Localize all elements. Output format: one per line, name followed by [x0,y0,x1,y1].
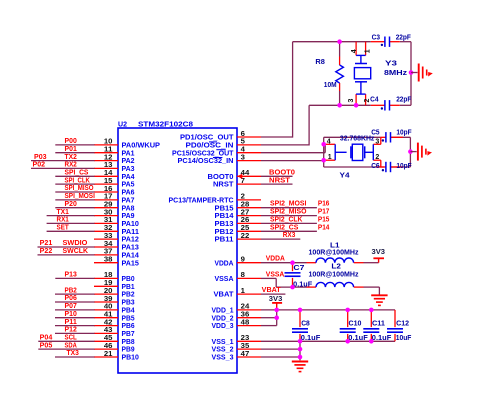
pin 23 VSS_1 [237,340,261,342]
svg-text:46: 46 [104,343,113,350]
svg-text:RX1: RX1 [57,217,69,224]
svg-text:SDA: SDA [65,342,77,349]
crystal Y3 pin 4 lead [355,42,357,56]
crystal Y3 top plate [355,63,367,65]
svg-text:NRST: NRST [213,182,234,189]
wire net VDD_3 [261,325,277,327]
pin 47 VSS_3 [237,356,261,358]
svg-text:100R@100MHz: 100R@100MHz [309,272,359,279]
svg-text:7: 7 [241,178,245,185]
wire PD0/OSC_IN to Y3 bottom rail [261,144,309,146]
svg-text:P07: P07 [65,303,77,310]
crystal Y4 left bracket [334,144,336,160]
svg-text:P04: P04 [40,335,53,342]
pin 20 PB2 [94,293,118,295]
pin 42 PB6 [94,325,118,327]
wire net P07 [55,309,95,311]
pin 48 VDD_3 [237,325,261,327]
svg-text:SPI_CLK: SPI_CLK [65,177,90,184]
pin 24 VDD_1 [237,309,261,311]
pin 33 PA12 [94,238,118,240]
svg-text:SPI_MISO: SPI_MISO [65,185,94,192]
junction Y3 ground node [409,70,414,75]
svg-text:P02: P02 [33,162,46,169]
wire PC14/OSC32_IN to Y4 [261,160,324,162]
svg-text:4: 4 [241,147,245,154]
svg-text:41: 41 [104,312,113,319]
svg-text:17: 17 [104,194,113,201]
wire net SPI2_CS [261,230,317,232]
wire net SDA [38,348,94,350]
svg-text:PB12: PB12 [215,229,234,236]
wire net NRST [261,183,293,185]
pin 35 VSS_2 [237,348,261,350]
svg-text:C6: C6 [371,163,379,170]
wire net SET [47,230,95,232]
wire net SCL [38,340,94,342]
junction VSS rail C8 [298,339,303,344]
wire VSS bottom rail [261,340,395,342]
wire R8 top [339,42,341,57]
svg-text:P22: P22 [40,248,53,255]
svg-text:P05: P05 [40,342,53,349]
svg-text:P10: P10 [65,311,77,318]
capacitor C7 [285,272,301,274]
svg-text:Y4: Y4 [340,173,350,180]
svg-text:11: 11 [104,147,113,154]
crystal Y4 pin 1 lead [324,159,336,161]
capacitor C10 [340,328,356,330]
wire net SWCLK [38,254,95,256]
pin 41 PB5 [94,317,118,319]
svg-text:C10: C10 [349,321,362,328]
svg-text:SPI2_MOSI: SPI2_MOSI [270,201,306,208]
pin 21 PB10 [94,356,118,358]
pin 18 PB0 [94,277,118,279]
pin 13 PA3 [94,167,118,169]
svg-text:PB8: PB8 [122,339,135,346]
wire net VSS_3 [261,356,300,358]
svg-text:SET: SET [57,225,70,232]
svg-text:33: 33 [104,233,113,240]
wire net P11 [55,325,95,327]
svg-text:SPI2_CS: SPI2_CS [270,224,299,231]
svg-text:PC13/TAMPER-RTC: PC13/TAMPER-RTC [169,198,234,205]
wire net SPI2_CLK [261,222,317,224]
wire net SPI2_MOSI [261,207,317,209]
capacitor C7 leads [292,263,294,272]
overbar on PD0/OSC_IN [209,141,217,143]
BOOT0 pin arrow marker [237,174,242,179]
pin 44 BOOT0 [237,175,261,177]
wire net RX1 [47,222,95,224]
pin 32 PA11 [94,230,118,232]
svg-text:3: 3 [375,138,379,145]
svg-text:SCL: SCL [65,335,78,342]
svg-text:P11: P11 [65,319,77,326]
svg-text:SWCLK: SWCLK [63,248,89,255]
svg-text:37: 37 [104,249,113,256]
svg-text:Y3: Y3 [385,61,397,68]
pin 34 PA13 [94,246,118,248]
wire net VDD_2 [261,317,277,319]
wire net RX2 [31,167,95,169]
pin 27 PB14 [237,215,261,217]
svg-text:13: 13 [104,162,113,169]
ground below L2 [371,294,387,296]
junction Y4 pin1 node [321,158,326,163]
junction VSS rail C11 [369,339,374,344]
svg-text:PB7: PB7 [122,331,135,338]
wire net VDDA [261,262,307,264]
svg-text:PA6: PA6 [122,190,135,197]
svg-text:PB9: PB9 [122,347,135,354]
svg-text:22pF: 22pF [396,34,412,41]
svg-text:PA1: PA1 [122,150,135,157]
svg-text:PA9: PA9 [122,213,135,220]
wire net SPI2_MISO [261,215,317,217]
pin 37 PA14 [94,254,118,256]
junction VDD rail VDD_2 [274,315,279,320]
wire PC15/OSC32_OUT to Y4 [261,152,325,154]
svg-text:PA3: PA3 [122,166,135,173]
svg-text:8MHz: 8MHz [384,70,408,77]
svg-text:P16: P16 [318,201,330,208]
svg-text:3V3: 3V3 [269,296,283,303]
svg-text:15: 15 [104,178,113,185]
svg-text:32: 32 [104,225,113,232]
pin 16 PA6 [94,191,118,193]
pin 38 PA15 [94,262,118,264]
svg-text:0.1uF: 0.1uF [293,281,313,288]
svg-text:P21: P21 [40,240,53,247]
junction Y3 top rail R8 [337,39,342,44]
svg-text:VDDA: VDDA [266,256,285,263]
svg-text:P13: P13 [65,272,77,279]
wire L1 to 3V3 [354,262,364,264]
svg-text:22: 22 [241,233,250,240]
capacitor C8 [292,328,308,330]
svg-text:PB2: PB2 [122,292,135,299]
svg-text:PA12: PA12 [122,237,139,244]
capacitor C11 leads [370,310,372,327]
power port 3V3 at L1 [378,258,380,262]
wire net P12 [55,332,95,334]
svg-text:VDD_3: VDD_3 [212,323,234,330]
svg-text:10: 10 [104,139,113,146]
wire net P13 [55,277,94,279]
svg-text:31: 31 [104,217,113,224]
capacitor C8 leads [299,310,301,327]
svg-text:PA8: PA8 [122,205,135,212]
ground Y3 [418,64,420,82]
svg-text:C8: C8 [301,321,310,328]
svg-text:PB5: PB5 [122,315,135,322]
svg-text:PA0/WKUP: PA0/WKUP [122,143,161,150]
svg-text:0.1uF: 0.1uF [372,335,392,342]
pin 17 PA7 [94,199,118,201]
wire Y3 top rail [293,41,371,43]
svg-text:35: 35 [241,343,250,350]
svg-text:P14: P14 [318,224,330,231]
wire Y4 ground stub [410,151,416,153]
junction VSS_3 node [298,355,303,360]
wire net P00 [55,144,94,146]
svg-text:10uF: 10uF [396,335,412,342]
pin 30 PA9 [94,215,118,217]
svg-text:3: 3 [348,99,355,103]
wire Y4 right vertical [409,137,411,167]
svg-text:3V3: 3V3 [372,249,386,256]
svg-text:20: 20 [104,288,113,295]
svg-text:RX2: RX2 [65,162,77,169]
wire Y4 bottom rail [324,166,384,168]
svg-text:SPI_CS: SPI_CS [65,170,89,177]
wire Y3 ground stub [411,72,418,74]
svg-text:PA13: PA13 [122,245,139,252]
svg-text:5: 5 [241,139,245,146]
svg-text:P12: P12 [65,327,77,334]
svg-text:TX3: TX3 [67,350,79,357]
svg-text:30: 30 [104,209,113,216]
wire net TX3 [55,356,95,358]
pin 6 PD1/OSC_OUT [237,136,261,138]
svg-text:34: 34 [104,241,113,248]
crystal Y3 body [354,68,370,79]
svg-text:C11: C11 [372,321,385,328]
svg-text:VSS_3: VSS_3 [212,355,234,362]
pin 19 PB1 [94,285,118,287]
pin 40 PB4 [94,309,118,311]
crystal Y4 right bracket [372,144,374,160]
capacitor C6 [385,162,387,172]
pin 28 PB15 [237,207,261,209]
junction VDDA C7 [290,260,295,265]
wire net RX3 [261,238,300,240]
svg-text:VSSA: VSSA [215,276,234,283]
svg-text:42: 42 [104,319,113,326]
svg-text:19: 19 [104,280,113,287]
pin 43 PB7 [94,332,118,334]
pin 8 VSSA [237,277,261,279]
junction Y4 ground node [408,149,413,154]
crystal Y4 right plate [364,146,366,158]
svg-text:VDDA: VDDA [215,260,234,267]
inductor L2 [316,282,354,287]
svg-text:VBAT: VBAT [214,292,235,299]
junction VDD rail C8 [298,308,303,313]
svg-text:PA5: PA5 [122,182,135,189]
svg-text:47: 47 [241,351,250,358]
junction Y3 bottom rail R8 [337,103,342,108]
svg-text:29: 29 [104,202,113,209]
svg-text:C12: C12 [396,321,409,328]
junction Y3 bottom rail crystal [354,103,359,108]
svg-text:P03: P03 [34,154,47,161]
IC U2 STM32F102C8 body [118,128,237,373]
wire net PB2 [55,293,95,295]
svg-text:SPI2_MISO: SPI2_MISO [270,209,307,216]
svg-text:P15: P15 [318,216,330,223]
pin 31 PA10 [94,222,118,224]
junction VSS_2 node [298,347,303,352]
pin 36 VDD_2 [237,317,261,319]
pin 15 PA5 [94,183,118,185]
pin 2 PC13/TAMPER-RTC [237,199,261,201]
svg-text:SPI2_CLK: SPI2_CLK [270,216,302,223]
svg-text:VDD_1: VDD_1 [212,308,234,315]
svg-text:PA11: PA11 [122,229,140,236]
svg-text:RX3: RX3 [283,232,296,239]
wire Y4 top rail right segment [390,136,410,138]
svg-text:4: 4 [351,49,358,53]
junction VDD rail C10 [345,308,350,313]
overbar on PC14/OSC32_IN [213,157,222,159]
svg-text:23: 23 [241,335,250,342]
pin 39 PB3 [94,301,118,303]
pin 46 PB9 [94,348,118,350]
svg-text:16: 16 [104,186,113,193]
capacitor C3 [384,37,386,47]
svg-text:38: 38 [104,257,113,264]
capacitor C12 [387,328,403,330]
pin 14 PA4 [94,175,118,177]
pin 29 PA8 [94,207,118,209]
svg-text:SWDIO: SWDIO [63,240,88,247]
crystal Y4 pin 3 lead [373,143,381,145]
svg-text:C5: C5 [371,130,379,137]
svg-text:BOOT0: BOOT0 [208,174,234,181]
pin 5 PD0/OSC_IN [237,144,261,146]
wire net VSS_2 [261,348,300,350]
crystal Y3 bottom bracket [356,93,366,95]
svg-text:10pF: 10pF [396,130,412,137]
svg-text:TX2: TX2 [65,154,77,161]
svg-text:C4: C4 [370,96,378,103]
svg-text:22pF: 22pF [396,96,412,103]
inductor L1 [316,258,354,263]
svg-text:PA10: PA10 [122,221,139,228]
wire net VBAT [261,293,285,295]
svg-text:36: 36 [241,312,250,319]
resistor R8 leads [339,57,341,66]
svg-text:P17: P17 [318,209,330,216]
svg-text:26: 26 [241,217,250,224]
wire net P06 [55,301,95,303]
pin 9 VDDA [237,262,261,264]
svg-text:PD1/OSC_OUT: PD1/OSC_OUT [180,135,234,142]
pin 45 PB8 [94,340,118,342]
svg-text:0.1uF: 0.1uF [301,335,321,342]
svg-text:25: 25 [241,225,250,232]
capacitor C4 leads [371,104,385,106]
wire net TX2 [31,160,95,162]
svg-text:10pF: 10pF [396,163,412,170]
capacitor C5 leads [381,136,386,138]
pin 12 PA2 [94,160,118,162]
svg-text:100R@100MHz: 100R@100MHz [309,249,359,256]
capacitor C12 leads [394,310,396,327]
wire Y3 right vertical [410,42,412,106]
pin 25 PB12 [237,230,261,232]
svg-text:2: 2 [375,154,379,161]
svg-text:U2: U2 [118,122,127,129]
svg-text:28: 28 [241,202,250,209]
wire Y3 bottom rail [340,104,371,106]
svg-text:SPI_MOSI: SPI_MOSI [65,193,95,200]
svg-text:PB1: PB1 [122,284,135,291]
wire net SPI_CS [55,175,94,177]
svg-text:P06: P06 [65,295,77,302]
capacitor C3 leads [371,41,385,43]
wire net P10 [55,317,95,319]
svg-text:L2: L2 [331,263,341,270]
wire net TX1 [47,215,95,217]
svg-text:P20: P20 [65,201,77,208]
wire net P20 [55,207,94,209]
svg-text:1: 1 [241,288,245,295]
capacitor C4 [384,100,386,110]
crystal Y3 pin 2 lead [365,94,367,105]
svg-text:48: 48 [241,319,250,326]
wire net BOOT0 [261,175,293,177]
wire Y4 bottom rail right segment [390,166,410,168]
crystal Y4 pin 2 lead [373,159,381,161]
svg-text:PA2: PA2 [122,158,135,165]
wire Y3 top rail right segment [400,41,411,43]
wire VDD top rail [261,309,395,311]
crystal Y3 pin 3 lead [355,94,357,105]
svg-text:12: 12 [104,154,113,161]
svg-text:18: 18 [104,272,113,279]
svg-text:PA14: PA14 [122,253,139,260]
wire C8 column to ground [299,341,301,360]
svg-text:VSS_1: VSS_1 [212,339,234,346]
svg-text:PB6: PB6 [122,323,135,330]
svg-text:P01: P01 [65,146,77,153]
svg-text:PB3: PB3 [122,300,135,307]
svg-text:C7: C7 [293,265,304,272]
wire R8 bottom [339,91,341,105]
svg-text:1: 1 [364,49,371,53]
svg-text:27: 27 [241,209,250,216]
svg-text:R8: R8 [315,59,325,66]
svg-text:PB10: PB10 [122,355,140,362]
pin 7 NRST [237,183,261,185]
svg-text:PB4: PB4 [122,308,135,315]
crystal Y4 body [352,144,363,160]
svg-text:VSSA: VSSA [266,271,285,278]
junction Y4 pin4 node [321,142,326,147]
svg-text:4: 4 [327,138,331,145]
svg-text:PB15: PB15 [215,205,234,212]
wire L2 to ground [354,286,364,288]
crystal Y3 pin 1 lead [365,42,367,56]
pin 26 PB13 [237,222,261,224]
overbar on PC15/OSC32_OUT [216,149,225,151]
wire net VSSA [261,277,276,279]
svg-text:VBAT: VBAT [262,287,282,294]
wire Y3 bottom rail right segment [400,104,411,106]
svg-text:21: 21 [104,351,113,358]
pin 4 PC15/OSC32_OUT [237,152,261,154]
pin 22 PB11 [237,238,261,240]
capacitor C5 [385,132,387,142]
svg-text:STM32F102C8: STM32F102C8 [138,122,193,129]
svg-text:VDD_2: VDD_2 [212,315,234,322]
wire net SPI_MISO [55,191,94,193]
ground Y4 [417,143,419,161]
